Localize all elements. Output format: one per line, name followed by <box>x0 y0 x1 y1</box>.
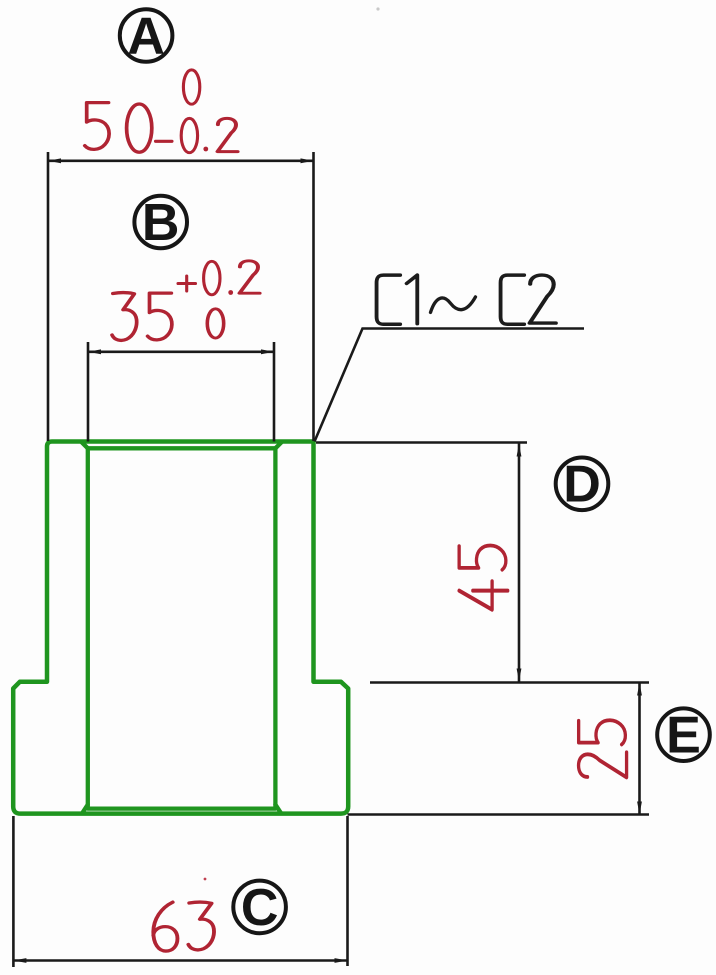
arrowhead dim 25 bottom <box>637 802 642 815</box>
chamfer callout text C1~C2 <box>377 275 556 324</box>
dimension text 50 lower tolerance 0.2 <box>181 118 237 152</box>
dim 35 extension line left <box>87 342 90 442</box>
bore (inner rectangle) <box>88 448 276 808</box>
dim 50 dimension line <box>48 160 314 163</box>
dim 45 extension line top <box>316 441 527 444</box>
dimension text 35 upper tolerance 0.2 <box>204 261 260 295</box>
arrowhead dim 45 bottom <box>517 669 522 682</box>
arrowhead dim 35 right <box>261 349 274 354</box>
bore chamfer tick bottom-right <box>275 805 280 813</box>
balloon C <box>233 879 286 937</box>
svg-text:C: C <box>241 879 279 937</box>
dimension text 25 (rotated) <box>579 720 627 777</box>
arrowhead dim 45 top <box>517 444 522 457</box>
svg-text:A: A <box>127 7 165 65</box>
dimension text 45 (rotated) <box>459 546 508 610</box>
dimension text 35 tolerance decimal point <box>228 290 233 295</box>
arrowhead dim 50 right <box>301 158 314 163</box>
balloon E <box>657 707 710 765</box>
bore chamfer tick top-right <box>275 442 281 448</box>
dimension text 50 upper tolerance 0 <box>183 70 199 104</box>
dimension text 50 tolerance decimal point <box>203 147 208 152</box>
dimension text 50 minus sign <box>156 140 173 143</box>
arrowhead dim 63 right <box>335 958 348 963</box>
dim 63 extension line right <box>346 816 349 966</box>
arrowhead dim 25 top <box>637 683 642 696</box>
dim 63 dimension line <box>13 959 347 962</box>
arrowhead dim 50 left <box>48 158 61 163</box>
dimension text 63 <box>153 902 214 951</box>
red speck <box>376 7 379 10</box>
svg-text:E: E <box>666 707 701 765</box>
dim 25 extension line bottom <box>348 813 650 816</box>
leader line C1~C2 <box>315 329 585 442</box>
balloon B <box>134 194 187 252</box>
bore chamfer tick top-left <box>82 442 88 448</box>
dimension text 35 lower tolerance 0 <box>207 309 223 338</box>
arrowhead dim 35 left <box>88 349 101 354</box>
balloon D <box>556 456 609 514</box>
dim 25 dimension line <box>638 683 641 815</box>
bore chamfer tick bottom-left <box>83 805 88 813</box>
balloon A <box>120 7 173 65</box>
dim 35 extension line right <box>273 342 276 442</box>
dimension text 50 <box>85 103 152 153</box>
arrowhead dim 63 left <box>13 958 26 963</box>
dimension text 35 <box>112 293 172 341</box>
dim 63 extension line left <box>12 816 15 967</box>
dim 50 extension line left <box>47 152 50 441</box>
dim 50 extension line right <box>312 152 315 441</box>
svg-text:B: B <box>142 194 180 252</box>
dim 35 dimension line <box>88 350 274 353</box>
svg-text:D: D <box>563 456 601 514</box>
shared extension line flange top <box>370 681 649 684</box>
part outline (green T-section body) <box>13 442 348 814</box>
dim 45 dimension line <box>518 444 521 682</box>
dimension text 35 plus sign <box>178 276 196 291</box>
